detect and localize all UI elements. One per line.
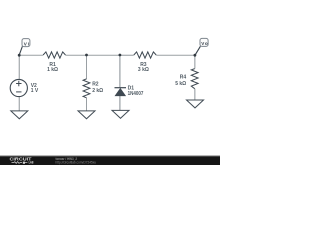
resistor R4 [191,69,198,89]
svg-text:1 V: 1 V [31,88,39,94]
CircuitLab logo text LAB [29,161,34,165]
voltage source V2 [10,79,27,96]
svg-text:1N4007: 1N4007 [128,91,144,97]
CircuitLab logo text CIRCUIT [10,157,32,162]
svg-text:3 kΩ: 3 kΩ [138,67,149,73]
label D1 value 1N4007 [128,91,144,97]
CircuitLab logo resistor glyph [12,162,28,164]
wire R1 to R2 junction [66,54,87,56]
svg-text:R2: R2 [92,81,99,87]
wire R2 bottom stem to ground [86,98,88,111]
node Vi flag pointer [18,46,23,56]
resistor R3 [134,52,156,58]
label R4 value 5 kOhm [175,81,186,87]
label R1 designator [49,62,56,68]
wire R2 junction to D1 junction [87,54,120,56]
wire R4 top stem [194,55,196,69]
wire R2 top stem [86,55,88,79]
svg-text:LAB: LAB [29,161,34,165]
wire D1 bottom stem to ground [119,96,121,111]
label R4 designator [180,75,187,81]
resistor R1 [43,52,65,58]
label R1 value 1 kOhm [47,67,58,73]
diode D1 [115,88,127,96]
label R3 designator [140,62,147,68]
attribution line 2 url [56,161,97,165]
wire top segment node Vi to R1 [19,54,43,56]
wire R3 to node Vo [156,54,195,56]
watermark bar [0,155,220,165]
svg-text:1 kΩ: 1 kΩ [47,67,58,73]
wire D1 junction to R3 [120,54,134,56]
svg-text:5 kΩ: 5 kΩ [175,81,186,87]
svg-text:o: o [205,41,208,46]
label D1 designator [128,85,135,91]
junction at D1 top [119,54,122,57]
junction at R2 top [85,54,88,57]
label V2 designator [31,83,37,89]
label V2 value 1 V [31,88,39,94]
label R3 value 3 kOhm [138,67,149,73]
wire V2 top stem [18,55,20,79]
svg-text:i: i [28,41,29,46]
ground below R4 [187,100,204,108]
node Vo flag pointer [194,46,201,56]
wire D1 top stem [119,55,121,87]
ground below V2 [11,111,28,119]
svg-text:R4: R4 [180,75,187,81]
label R2 designator [92,81,99,87]
wire V2 bottom stem to ground [18,97,20,111]
svg-text:http://circuitlab.com/c/7245xu: http://circuitlab.com/c/7245xu [56,161,97,165]
ground below R2 [78,111,95,119]
resistor R2 [83,79,90,98]
attribution line 1 username / project [56,157,78,161]
node Vi label box [22,39,30,47]
wire R4 bottom stem to ground [194,89,196,100]
label R2 value 2 kOhm [92,88,103,94]
svg-text:2 kΩ: 2 kΩ [92,88,103,94]
node Vo label box [200,38,208,46]
ground below D1 [112,110,129,118]
